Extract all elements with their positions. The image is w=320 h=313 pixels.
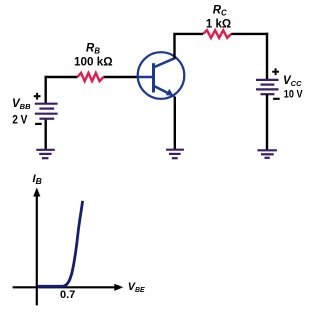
wire top horizontal right of RC: [231, 33, 268, 35]
label RC: [213, 4, 227, 17]
svg-text:VBE: VBE: [128, 281, 145, 294]
svg-text:VBB: VBB: [12, 98, 31, 111]
graph y-axis IB: [33, 188, 40, 306]
wire VBB bottom to ground: [45, 119, 47, 150]
transistor emitter lead with arrow: [154, 86, 175, 97]
svg-text:IB: IB: [33, 173, 42, 186]
ground symbol left: [36, 150, 55, 158]
ground symbol right: [257, 150, 277, 158]
transistor collector lead: [154, 58, 176, 68]
resistor RB: [78, 73, 104, 81]
wire collector vertical: [173, 34, 175, 59]
label 100 kOhm: [74, 54, 113, 68]
transistor base bar: [152, 63, 155, 92]
battery VBB minus sign: [35, 123, 42, 125]
battery VCC minus sign: [273, 98, 280, 100]
wire VBB top vertical: [45, 76, 47, 103]
battery VBB: [35, 104, 58, 119]
label 2 V: [12, 114, 27, 126]
label VCC: [283, 75, 302, 88]
svg-text:10 V: 10 V: [284, 89, 303, 101]
label 0.7: [60, 289, 75, 301]
svg-text:VCC: VCC: [283, 75, 302, 88]
battery VCC plus sign: [272, 68, 279, 75]
ground symbol middle: [166, 150, 184, 159]
graph x-axis VBE: [13, 284, 124, 291]
battery VCC: [256, 80, 279, 94]
label 10 V: [284, 89, 303, 101]
svg-text:0.7: 0.7: [60, 289, 75, 301]
transistor base lead: [138, 76, 154, 79]
label RB: [86, 43, 100, 56]
label IB: [33, 173, 42, 186]
battery VBB plus sign: [34, 93, 41, 100]
curve IB vs VBE exponential: [38, 201, 83, 286]
transistor Q1 circle: [138, 52, 185, 99]
wire emitter vertical to ground: [174, 97, 176, 150]
svg-text:RC: RC: [213, 4, 227, 17]
svg-text:1 kΩ: 1 kΩ: [206, 19, 231, 31]
wire VCC top vertical: [266, 33, 268, 80]
label 1 kOhm: [206, 19, 231, 31]
wire VCC bottom to ground: [266, 94, 268, 150]
label VBE: [128, 281, 145, 294]
resistor RC: [203, 30, 231, 38]
label VBB: [12, 98, 31, 111]
wire top horizontal left of RC: [173, 33, 203, 35]
svg-text:2 V: 2 V: [12, 114, 27, 126]
svg-text:100 kΩ: 100 kΩ: [74, 54, 113, 68]
wire base horizontal from VBB to transistor: [45, 76, 139, 78]
